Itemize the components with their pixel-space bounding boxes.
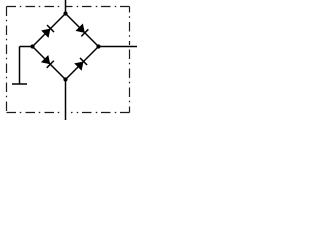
wire: bridge arm bottom node to right node (66, 47, 99, 80)
junction dot top node (63, 11, 67, 15)
dash-dot enclosure border: top side right segment (66, 6, 130, 8)
dash-dot enclosure border: bottom side right segment (71, 112, 130, 114)
diode D3 lower-left arm (anode left node, cathode bottom node) (41, 55, 54, 68)
diode D1 upper-left arm (anode left node, cathode top node) (41, 25, 54, 38)
junction dot bottom node (63, 77, 67, 81)
diode D2 upper-right arm (anode top node, cathode right node) (75, 23, 88, 36)
junction dot left node (30, 44, 34, 48)
dash-dot enclosure border: right side lower segment (129, 50, 131, 113)
diode D4 lower-right arm (anode bottom node, cathode right node) (74, 58, 87, 71)
wire: right lead from right node to image edge (99, 46, 138, 48)
dash-dot enclosure border: right side upper segment (129, 7, 131, 46)
terminal T-bar at end of left branch (12, 83, 27, 85)
dash-dot enclosure border: left side (6, 7, 8, 113)
dash-dot enclosure border: bottom side left segment (7, 112, 63, 114)
wire: left branch vertical down (19, 47, 21, 85)
junction dot right node (96, 44, 100, 48)
wire: bridge arm left node to top node (33, 14, 66, 47)
wire: left branch horizontal from left node (20, 46, 33, 48)
wire: bottom lead from bottom node to image edge (65, 80, 67, 121)
dash-dot enclosure border: top side left segment (7, 6, 63, 8)
wire: top lead from image edge to top node (65, 0, 67, 14)
wire: bridge arm top node to right node (66, 14, 99, 47)
wire: bridge arm left node to bottom node (33, 47, 66, 80)
